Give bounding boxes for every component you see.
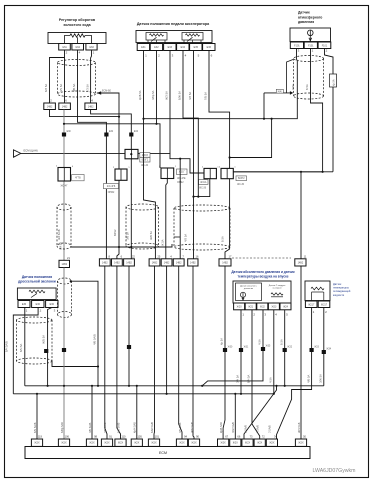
pressure sensor terminals <box>290 42 303 49</box>
svg-text:Е30: Е30 <box>67 131 72 133</box>
svg-text:Ч/Б 5А/Б: Ч/Б 5А/Б <box>103 422 107 433</box>
signal arrow ECM lead <box>14 150 21 157</box>
TPS body <box>17 288 56 300</box>
wire ECT2 joins ground bus385 <box>323 308 325 386</box>
svg-text:Кр/Б 5АБ: Кр/Б 5АБ <box>219 422 223 433</box>
svg-text:Ж2Х: Ж2Х <box>118 442 124 445</box>
svg-text:Датчик: Датчик <box>298 11 310 15</box>
svg-text:Ж2Х: Ж2Х <box>61 442 67 445</box>
wire TPS1 through shield to bus385 <box>24 308 26 386</box>
TPS terminals <box>18 301 30 308</box>
svg-text:14В2: 14В2 <box>152 261 158 264</box>
APP potentiometer 1 <box>146 33 167 41</box>
ECM pin 72 <box>254 439 265 446</box>
wire J4 output joins C3 wires <box>194 179 210 197</box>
splice E34 on v7 <box>129 133 133 137</box>
wire APP4 jog to column 198 <box>183 51 198 197</box>
row outputs to ECM pins <box>105 266 107 439</box>
svg-text:Б03Г2: Б03Г2 <box>238 178 245 180</box>
svg-text:Б/Ч 5А/Б: Б/Ч 5А/Б <box>5 341 9 352</box>
shield B drain arrow <box>264 92 291 94</box>
svg-text:Датчик: Датчик <box>333 282 342 286</box>
svg-text:Ж24: Ж24 <box>283 305 289 308</box>
svg-text:ЖС-4ГЕ: ЖС-4ГЕ <box>177 178 186 180</box>
svg-text:Ж/З 5А: Ж/З 5А <box>165 91 169 100</box>
svg-text:Ж/Ч 5АБ: Ж/Ч 5АБ <box>297 422 301 433</box>
junction box J2 JC-4FB <box>115 169 127 180</box>
svg-text:Ч/Б 5А: Ч/Б 5А <box>306 374 310 383</box>
ECM pin 73 <box>242 439 253 446</box>
svg-text:Ж35: Ж35 <box>266 346 271 348</box>
MAP sub box <box>236 283 262 301</box>
inline connector row box 9 <box>219 259 231 266</box>
svg-text:Ж33: Ж33 <box>314 347 319 349</box>
gray wire through E to ECM pin <box>63 268 65 440</box>
svg-text:З 5А/Б: З 5А/Б <box>268 425 272 433</box>
svg-text:ЕСМ-Б0: ЕСМ-Б0 <box>102 90 112 93</box>
svg-text:З/Ч 5А: З/Ч 5А <box>236 375 240 383</box>
inline connector row box 4 <box>124 259 135 266</box>
component ECT body <box>305 281 330 301</box>
svg-text:14В2: 14В2 <box>102 261 108 264</box>
shield D drain to rail <box>52 361 98 367</box>
svg-text:14В2: 14В2 <box>164 261 170 264</box>
svg-text:Ж2Х: Ж2Х <box>221 442 227 445</box>
IACV coil symbol <box>70 34 85 37</box>
inline connector row box 2 <box>99 259 110 266</box>
APP terminal row <box>137 44 149 51</box>
shield cylinder C1 narrow <box>57 204 71 210</box>
svg-text:Е34: Е34 <box>134 131 139 133</box>
inline connector row box 10 <box>295 259 306 266</box>
svg-text:Ж34: Ж34 <box>326 349 331 351</box>
bus box B5 on signal bus <box>125 149 138 158</box>
svg-text:Ж22: Ж22 <box>260 305 266 308</box>
svg-text:Ж21: Ж21 <box>248 305 254 308</box>
svg-text:З/Ч 5А: З/Ч 5А <box>59 84 63 92</box>
APP pot stubs <box>147 40 149 44</box>
svg-text:Ч/З 5А: Ч/З 5А <box>184 234 188 242</box>
inline connector 14B2 b <box>59 103 71 110</box>
junction box J5 JC-30 <box>221 168 233 178</box>
svg-text:Датчик Т воздуха: Датчик Т воздуха <box>269 285 286 287</box>
svg-text:ЖС-4ГБ: ЖС-4ГБ <box>107 186 116 188</box>
svg-text:Ч 5А: Ч 5А <box>291 84 295 90</box>
svg-text:Ж2Х: Ж2Х <box>34 442 40 445</box>
inline connector row box 5 <box>149 259 160 266</box>
svg-text:E36: E36 <box>207 46 212 49</box>
svg-text:14В2: 14В2 <box>114 261 120 264</box>
svg-text:Б/Ж 5А/Б: Б/Ж 5А/Б <box>150 422 154 433</box>
svg-text:Ж2Х: Ж2Х <box>191 442 197 445</box>
svg-text:Ж2Х: Ж2Х <box>269 442 275 445</box>
inline connector 14B2 a <box>44 103 56 110</box>
wire J2 output to row <box>117 180 119 258</box>
svg-text:Б 5А: Б 5А <box>305 84 309 90</box>
svg-text:Ч 5А/Б: Ч 5А/Б <box>256 425 260 433</box>
ground tie inside C3 <box>174 236 180 238</box>
svg-text:119: 119 <box>38 435 43 439</box>
svg-text:Б/Ч 5А: Б/Ч 5А <box>19 343 23 352</box>
svg-text:Ж2Х: Ж2Х <box>233 442 239 445</box>
svg-text:Е30: Е30 <box>22 303 27 306</box>
ECM pin 106 <box>58 439 69 446</box>
ECM pin 50 <box>295 439 306 446</box>
svg-text:З/Ч 5А/Б: З/Ч 5А/Б <box>178 422 182 433</box>
shield cylinder C2 <box>126 204 159 210</box>
shield B drain drop to ground bus <box>263 93 265 119</box>
svg-text:ЖС-30: ЖС-30 <box>237 184 245 186</box>
svg-text:G63: G63 <box>89 46 94 49</box>
svg-text:Б/Ч 5А: Б/Ч 5А <box>247 374 251 383</box>
wire MAP t5 to bus385 <box>284 310 286 386</box>
svg-text:14В2: 14В2 <box>61 263 67 266</box>
svg-text:Ж30: Ж30 <box>228 347 233 349</box>
ECM pin 101 <box>148 439 159 446</box>
ECM pin 66 <box>230 439 241 446</box>
svg-text:106: 106 <box>65 435 70 439</box>
gray wire IACV pin6 long vertical <box>63 110 65 261</box>
inline connector row box 3 <box>112 259 123 266</box>
shield cylinder A under IACV <box>58 60 96 66</box>
svg-text:14В2: 14В2 <box>88 105 94 108</box>
svg-text:14В2: 14В2 <box>126 261 132 264</box>
wire MAP t4 to bus394 <box>273 310 275 394</box>
svg-text:Кр 5А: Кр 5А <box>332 79 335 86</box>
svg-text:Ч 5А: Ч 5А <box>258 339 262 345</box>
shield cylinder D under TPS <box>17 317 53 323</box>
ECM box <box>25 447 310 459</box>
wire TPS2 left margin route <box>13 308 38 394</box>
svg-text:З/Ж 5А/Б: З/Ж 5А/Б <box>231 422 235 433</box>
svg-text:Ж4 5А/Б: Ж4 5А/Б <box>57 229 61 240</box>
svg-text:Ж31: Ж31 <box>244 347 249 349</box>
svg-text:З/Кр 5А: З/Кр 5А <box>151 90 155 100</box>
wire APP1 to shield C2 right <box>144 51 156 259</box>
wire MAP t2 diagonal to ECM pin 72 <box>252 310 260 439</box>
shield cylinder E <box>58 278 72 284</box>
svg-text:E34: E34 <box>181 46 186 49</box>
shield drain bus y247 <box>71 244 172 247</box>
svg-text:Ж2Х: Ж2Х <box>104 442 110 445</box>
svg-text:Б/Ж 5А: Б/Ж 5А <box>178 91 182 100</box>
wire ECT1 to ECM <box>277 308 312 440</box>
svg-text:Ж2Х: Ж2Х <box>134 442 140 445</box>
IACV terminal G61 <box>59 44 71 51</box>
IACV terminal G62 <box>72 44 84 51</box>
ground bus y393.8 <box>13 393 274 395</box>
bus y171.8 from JC-30 to pressure sensor wires <box>233 171 333 173</box>
svg-text:Ж4 5А: Ж4 5А <box>58 242 62 250</box>
ground branch to JC-30 column <box>230 119 272 158</box>
shield cylinder C3 <box>174 205 230 211</box>
svg-text:Г/Б 5А: Г/Б 5А <box>204 92 208 100</box>
svg-text:14В2: 14В2 <box>298 261 304 264</box>
svg-text:Регулятор оборотов: Регулятор оборотов <box>59 18 96 22</box>
pressure sensor body <box>290 28 331 42</box>
svg-text:Б/З 5А: Б/З 5А <box>44 84 48 92</box>
svg-text:Б/З 5А/Б: Б/З 5А/Б <box>116 422 120 433</box>
svg-text:G61: G61 <box>62 46 67 49</box>
junction box J4 JC-26 <box>204 168 216 178</box>
ECM pin 91 <box>101 439 112 446</box>
wire IACV pin1 <box>90 50 93 103</box>
svg-text:дроссельной заслонки: дроссельной заслонки <box>18 280 56 284</box>
svg-text:ОРМ2: ОРМ2 <box>108 192 115 194</box>
svg-text:холостого хода: холостого хода <box>63 23 91 27</box>
signal bus y153 to APP3 <box>21 152 169 154</box>
svg-text:Б03Г2: Б03Г2 <box>142 160 149 162</box>
svg-text:Ж2Х: Ж2Х <box>89 442 95 445</box>
svg-text:F101: F101 <box>294 44 300 47</box>
inline connector row box 7 <box>173 259 184 266</box>
ECM pin 110 <box>115 439 126 446</box>
svg-text:З/Б 5А/Б: З/Б 5А/Б <box>88 422 92 433</box>
svg-text:Ж32: Ж32 <box>287 347 292 349</box>
svg-text:Ж 5А: Ж 5А <box>161 239 165 246</box>
ECM pin 90 <box>188 439 199 446</box>
bus y123.8 from gray wire to J3 <box>64 124 160 168</box>
svg-text:Ж217: Ж217 <box>321 303 328 306</box>
svg-text:Е32: Е32 <box>109 131 114 133</box>
svg-text:Кр/Б 5А: Кр/Б 5А <box>138 90 142 100</box>
shield A drain arrow <box>97 91 101 95</box>
wire label box <box>330 74 337 87</box>
svg-text:F101: F101 <box>308 44 314 47</box>
ground bus y385.8 <box>25 385 324 387</box>
svg-text:14В2: 14В2 <box>222 261 228 264</box>
svg-text:Ж/Б 5А/Б: Ж/Б 5А/Б <box>190 422 194 433</box>
svg-text:Б 5А/Б: Б 5А/Б <box>243 425 247 433</box>
bus from IACV pin2 branch to drain column <box>50 110 120 117</box>
inline connector 14B2 c <box>85 103 97 110</box>
svg-text:Датчик положения педали акселе: Датчик положения педали акселератора <box>137 22 210 26</box>
TPS potentiometer <box>29 290 45 293</box>
svg-text:Е30: Е30 <box>36 303 41 306</box>
drop from bus y171.8 to row <box>300 172 302 259</box>
svg-text:LWA6JD07Gywkm: LWA6JD07Gywkm <box>313 468 356 474</box>
bus385 pin drops <box>91 386 93 439</box>
svg-text:105: 105 <box>137 435 142 439</box>
svg-text:Б/Кр 5АБ: Б/Кр 5АБ <box>60 422 64 433</box>
svg-text:101: 101 <box>155 435 160 439</box>
inline connector row box 6 <box>161 259 172 266</box>
svg-text:F101: F101 <box>322 44 328 47</box>
wire MAP t3 jog into ground bus <box>202 310 263 386</box>
shield B top tie <box>287 60 294 93</box>
svg-text:давления: давления <box>244 288 253 290</box>
wire J5 output into shield C3 <box>225 179 230 259</box>
svg-text:Ж2Х: Ж2Х <box>257 442 263 445</box>
ECT terminals <box>305 301 317 308</box>
inline connector row box 1 <box>59 260 70 267</box>
IACV body <box>48 33 106 44</box>
svg-text:Б 5А: Б 5А <box>221 236 225 242</box>
svg-text:14В2: 14В2 <box>176 261 182 264</box>
svg-text:ЖС-26: ЖС-26 <box>199 188 207 190</box>
svg-text:Ч 5А: Ч 5А <box>269 377 273 383</box>
pressure sensor symbol <box>308 30 314 36</box>
wire APP2 drop to bus y123.8 <box>156 51 158 124</box>
wire MAP t1 to bus394 <box>240 310 242 394</box>
svg-text:Кр 5А: Кр 5А <box>220 338 224 345</box>
svg-text:жидкости: жидкости <box>333 294 345 297</box>
wires through C2 <box>130 159 132 259</box>
wire IACV pin1 to v7 jog <box>91 110 132 150</box>
ECM pin 98 <box>86 439 97 446</box>
svg-text:Б 5А: Б 5А <box>279 339 283 345</box>
wire APP6 jog to JC-30 column <box>209 51 230 169</box>
shield E drain bus to rail x98 <box>71 281 98 386</box>
svg-text:Ж2Х: Ж2Х <box>151 442 157 445</box>
wire J3 output to row <box>166 179 168 259</box>
svg-text:14В2: 14В2 <box>190 261 196 264</box>
svg-text:Ж/Б 5А: Ж/Б 5А <box>149 231 153 240</box>
svg-text:ЖС-4Г: ЖС-4Г <box>60 186 68 188</box>
wire APP5 straight through shield C3 <box>193 51 195 259</box>
MAP-IAT body <box>233 281 291 303</box>
APP potentiometer 2 <box>182 33 203 41</box>
svg-text:Датчик положения: Датчик положения <box>22 275 52 279</box>
svg-text:Е(В): Е(В) <box>278 91 282 93</box>
MAP-IAT terminals <box>234 303 245 310</box>
splice E32 <box>104 133 108 137</box>
svg-text:E32: E32 <box>154 46 159 49</box>
diagonal drop from ground bus to ECM pin 73 <box>244 386 277 439</box>
svg-text:E35: E35 <box>194 46 199 49</box>
splice E30 <box>62 133 66 137</box>
svg-text:температуры воздуха на впуске: температуры воздуха на впуске <box>237 275 288 279</box>
svg-text:G62: G62 <box>75 46 80 49</box>
svg-text:Ч/Б 5А/Б: Ч/Б 5А/Б <box>92 334 96 345</box>
wire from row box 9 down to ECM <box>223 266 225 439</box>
ECM pin 119 <box>31 439 42 446</box>
svg-text:Б0Ч2: Б0Ч2 <box>113 229 117 236</box>
ECT thermistor symbol <box>311 287 324 290</box>
wire APP3 to signal bus then J4 <box>169 51 171 154</box>
ECM pin 67 <box>218 439 229 446</box>
svg-text:Кр/Ч 5АБ: Кр/Ч 5АБ <box>133 422 137 433</box>
svg-text:Датчик абсолютного давления и: Датчик абсолютного давления и датчик <box>231 270 295 274</box>
svg-text:охлаждающей: охлаждающей <box>333 289 351 293</box>
bus394 drop to pin 66 <box>234 394 236 439</box>
junction box J1 JC-4F on gray wire <box>58 168 71 182</box>
junction box J3 JC-4FE <box>161 168 174 179</box>
ECM pin 105 <box>131 439 142 446</box>
wire pres pin3 through shield to ground bus <box>144 49 298 119</box>
svg-text:ЕСМ (ЦАН): ЕСМ (ЦАН) <box>24 149 38 153</box>
svg-text:ЖС-34: ЖС-34 <box>141 165 149 167</box>
svg-text:4ГТВ: 4ГТВ <box>75 178 81 180</box>
svg-text:З/Ж 5А: З/Ж 5А <box>319 374 323 383</box>
svg-text:Ж2Х: Ж2Х <box>179 442 185 445</box>
svg-text:Ж30Х: Ж30Х <box>142 155 149 157</box>
svg-text:14В2: 14В2 <box>47 105 53 108</box>
svg-text:ЕСМ: ЕСМ <box>159 451 167 455</box>
svg-text:Ж20: Ж20 <box>237 305 243 308</box>
svg-text:Ж23: Ж23 <box>271 305 277 308</box>
svg-text:Датчик абсолютн.: Датчик абсолютн. <box>240 285 258 287</box>
wire branch to shield C3 left <box>179 158 181 160</box>
svg-text:температуры: температуры <box>333 287 349 290</box>
svg-text:на впуске: на впуске <box>272 288 282 290</box>
IACV terminal G63 <box>86 44 97 51</box>
svg-text:14В2: 14В2 <box>62 105 68 108</box>
svg-text:З/Б 5А: З/Б 5А <box>125 232 129 240</box>
svg-text:давления: давления <box>298 20 314 24</box>
svg-text:Ж217: Ж217 <box>308 303 315 306</box>
wire pres pin1 through shield to junction <box>233 49 322 172</box>
wire IACV pin2 with left branch <box>64 50 66 103</box>
svg-text:Ч/Б 5А: Ч/Б 5А <box>72 83 76 92</box>
svg-text:Ж2Х: Ж2Х <box>245 442 251 445</box>
svg-text:Ж/Б 5А: Ж/Б 5А <box>42 335 46 344</box>
wire IACV pin4 through shield <box>78 50 107 259</box>
MAP-IAT dashed group outline <box>232 257 291 259</box>
svg-text:атмосферного: атмосферного <box>298 15 322 19</box>
svg-text:E33: E33 <box>168 46 173 49</box>
svg-text:Б/Ч 5А/Б: Б/Ч 5А/Б <box>33 422 37 433</box>
svg-text:110: 110 <box>121 435 126 439</box>
inline connector row box 8 <box>188 259 198 266</box>
ECM pin 34 <box>266 439 277 446</box>
wire pres pin2 outside shield <box>325 49 334 172</box>
APP body <box>136 31 212 43</box>
svg-text:Ч/З 5А: Ч/З 5А <box>188 92 192 100</box>
svg-text:Ж2Х: Ж2Х <box>298 442 304 445</box>
svg-text:Г/З 5А: Г/З 5А <box>85 84 89 92</box>
svg-text:Е30: Е30 <box>50 303 55 306</box>
ECM pin 94 <box>176 439 187 446</box>
shield cylinder B under pressure sensor <box>294 56 324 62</box>
svg-text:Ж31А: Ж31А <box>200 181 207 184</box>
wire TPS3 through shield <box>48 308 52 387</box>
svg-text:E31: E31 <box>141 46 146 49</box>
